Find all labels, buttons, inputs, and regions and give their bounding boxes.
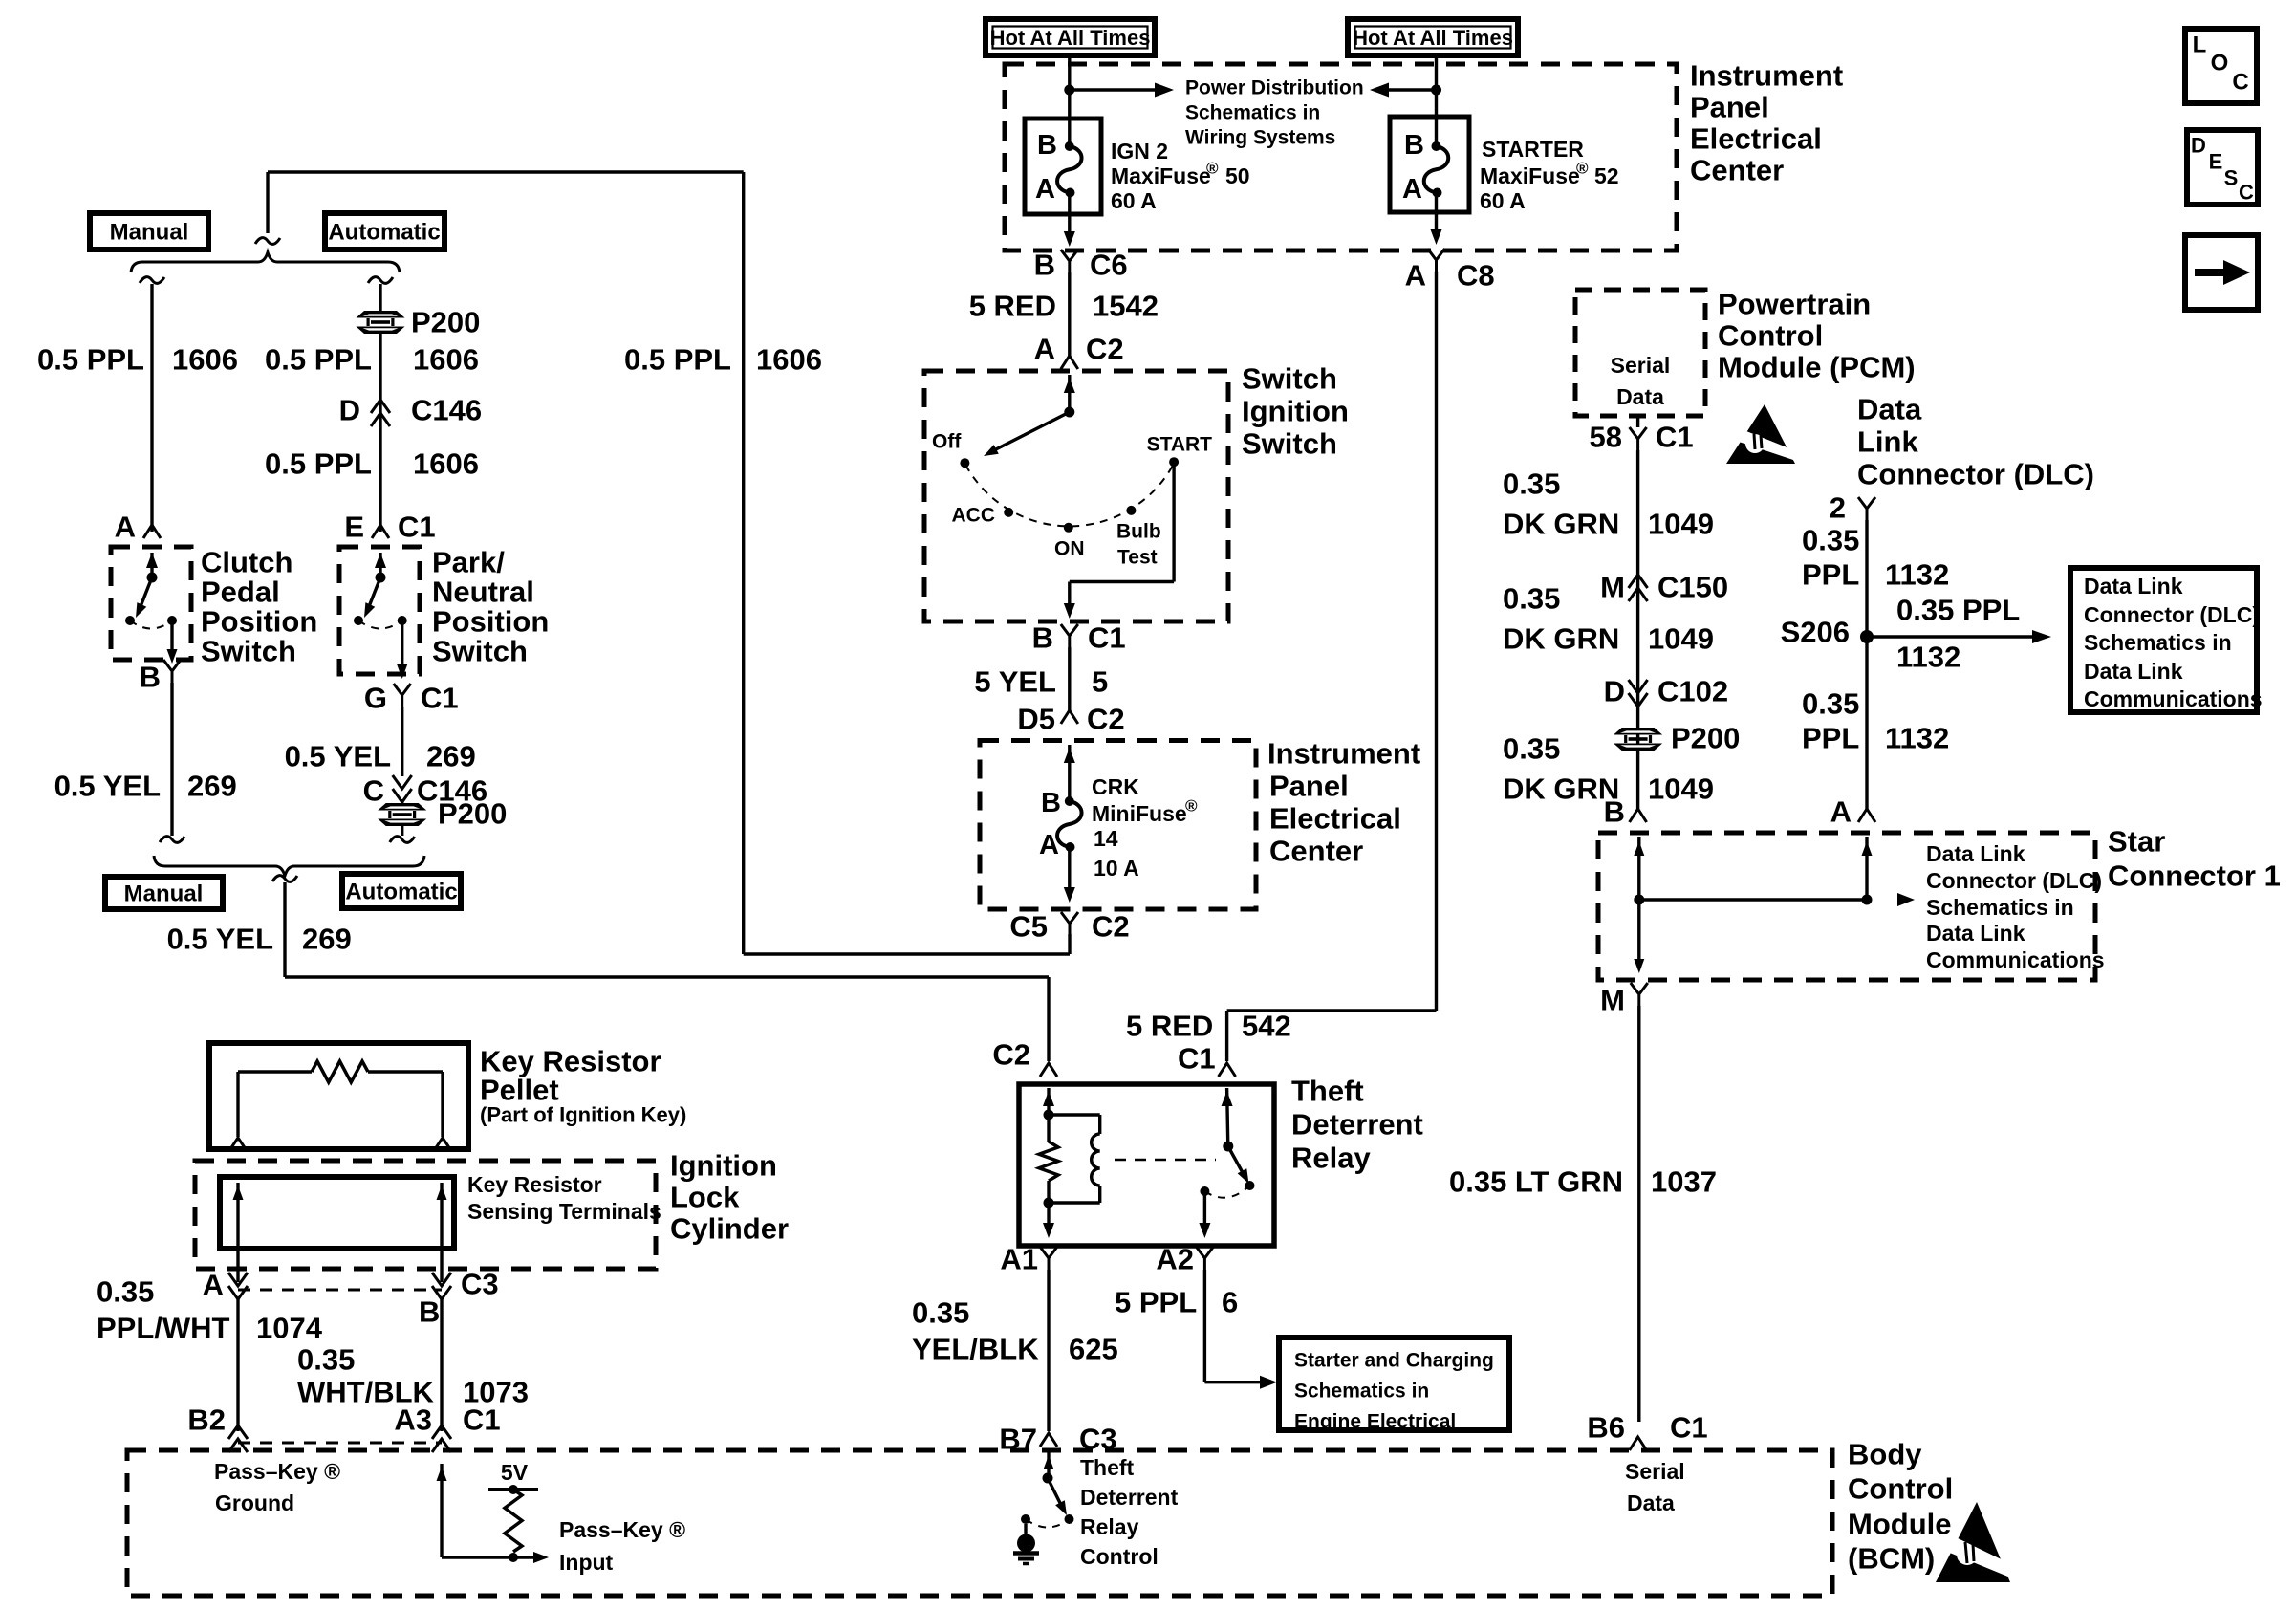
svg-text:C1: C1 [463,1403,501,1437]
svg-text:Connector 1: Connector 1 [2108,859,2281,893]
svg-text:Position: Position [432,605,549,639]
svg-text:D: D [2191,134,2206,158]
svg-text:B: B [1604,795,1625,829]
svg-text:Pass–Key ®: Pass–Key ® [559,1517,685,1542]
svg-text:Ignition: Ignition [670,1149,777,1183]
svg-text:5 PPL: 5 PPL [1115,1286,1197,1319]
svg-text:5V: 5V [501,1460,529,1485]
svg-text:P200: P200 [1671,722,1740,755]
svg-text:1542: 1542 [1093,290,1159,323]
svg-text:S206: S206 [1781,616,1850,649]
svg-text:Pass–Key ®: Pass–Key ® [214,1459,340,1484]
svg-text:0.35: 0.35 [1802,524,1859,557]
svg-text:Clutch: Clutch [201,546,292,579]
svg-text:1049: 1049 [1648,622,1714,656]
svg-text:1074: 1074 [256,1312,323,1345]
svg-text:S: S [2224,166,2239,190]
svg-text:Park/: Park/ [432,546,505,579]
svg-text:®: ® [1185,797,1198,816]
svg-text:Off: Off [932,431,962,453]
svg-text:0.35: 0.35 [97,1275,154,1309]
svg-text:0.35: 0.35 [1503,468,1560,501]
svg-text:PPL: PPL [1802,722,1859,755]
svg-text:Communications: Communications [2084,686,2263,711]
svg-text:Link: Link [1857,425,1918,459]
svg-text:60 A: 60 A [1111,188,1157,213]
svg-text:C1: C1 [1178,1042,1216,1076]
svg-text:0.35: 0.35 [912,1296,969,1330]
svg-text:C1: C1 [1656,421,1694,454]
svg-text:Power Distribution: Power Distribution [1185,77,1364,99]
svg-text:542: 542 [1242,1010,1291,1043]
svg-text:O: O [2211,51,2229,76]
svg-text:0.5 YEL: 0.5 YEL [285,740,391,773]
svg-text:Automatic: Automatic [328,220,440,246]
svg-text:C2: C2 [1087,703,1125,736]
svg-text:5 RED: 5 RED [969,290,1056,323]
svg-text:B: B [1037,130,1057,161]
svg-text:Position: Position [201,605,317,639]
svg-text:Instrument: Instrument [1267,737,1420,771]
svg-text:STARTER: STARTER [1482,137,1584,162]
svg-text:Manual: Manual [124,881,204,907]
svg-text:ACC: ACC [952,505,996,527]
svg-text:C2: C2 [1086,333,1124,366]
svg-text:1606: 1606 [413,343,479,377]
svg-text:269: 269 [302,923,352,956]
svg-text:Data Link: Data Link [2084,659,2183,684]
svg-text:Body: Body [1848,1438,1922,1471]
svg-text:1606: 1606 [413,447,479,481]
svg-text:Bulb: Bulb [1116,521,1161,543]
svg-text:C2: C2 [992,1038,1030,1072]
svg-text:Schematics in: Schematics in [1926,895,2074,920]
svg-text:Control: Control [1080,1544,1159,1569]
svg-text:B: B [419,1295,440,1329]
svg-text:PPL/WHT: PPL/WHT [97,1312,230,1345]
svg-text:START: START [1147,434,1213,456]
svg-text:Manual: Manual [110,220,189,246]
svg-text:Deterrent: Deterrent [1291,1108,1423,1142]
svg-text:Automatic: Automatic [345,880,457,905]
svg-text:0.5 YEL: 0.5 YEL [54,770,161,803]
svg-text:5 YEL: 5 YEL [974,665,1056,699]
svg-text:®: ® [1206,160,1219,178]
svg-text:269: 269 [426,740,476,773]
svg-text:DK GRN: DK GRN [1503,508,1619,541]
svg-text:Communications: Communications [1926,947,2105,972]
svg-text:Engine Electrical: Engine Electrical [1294,1411,1456,1433]
svg-text:PPL: PPL [1802,558,1859,592]
svg-text:Starter and Charging: Starter and Charging [1294,1350,1494,1372]
svg-text:Cylinder: Cylinder [670,1212,789,1246]
svg-text:0.5 PPL: 0.5 PPL [265,447,372,481]
svg-text:C1: C1 [421,682,459,715]
svg-text:Data: Data [1616,384,1664,409]
svg-text:Theft: Theft [1291,1075,1364,1108]
svg-text:G: G [364,682,387,715]
svg-text:0.5 PPL: 0.5 PPL [37,343,144,377]
svg-text:A: A [1402,174,1422,205]
svg-text:B: B [140,661,161,694]
svg-text:Powertrain: Powertrain [1718,288,1871,321]
svg-text:Control: Control [1848,1472,1953,1506]
svg-text:D5: D5 [1017,703,1055,736]
svg-text:Hot At All Times: Hot At All Times [1353,26,1513,50]
svg-text:Pellet: Pellet [480,1074,559,1107]
svg-text:1132: 1132 [1885,722,1949,755]
svg-text:0.35: 0.35 [297,1343,355,1377]
svg-text:B: B [1032,621,1053,655]
svg-text:60 A: 60 A [1480,188,1526,213]
svg-text:D: D [339,394,360,427]
svg-text:5 RED: 5 RED [1126,1010,1213,1043]
svg-text:1606: 1606 [756,343,822,377]
svg-text:MaxiFuse: MaxiFuse [1480,163,1580,188]
svg-text:Data Link: Data Link [1926,921,2025,946]
svg-text:MiniFuse: MiniFuse [1092,801,1187,826]
svg-text:A: A [1035,174,1055,205]
svg-text:IGN 2: IGN 2 [1111,139,1168,163]
svg-text:Hot At All Times: Hot At All Times [990,26,1151,50]
svg-text:625: 625 [1069,1333,1118,1366]
svg-text:DK GRN: DK GRN [1503,622,1619,656]
svg-text:B6: B6 [1587,1411,1625,1445]
svg-text:B: B [1034,249,1055,282]
svg-text:0.35: 0.35 [1802,687,1859,721]
svg-text:D: D [1604,675,1625,708]
svg-text:Serial: Serial [1611,353,1671,378]
svg-text:Star: Star [2108,825,2165,859]
svg-text:C: C [2232,70,2248,96]
svg-text:(BCM): (BCM) [1848,1542,1935,1576]
svg-text:A2: A2 [1156,1243,1194,1276]
svg-text:1037: 1037 [1651,1165,1717,1199]
svg-text:Electrical: Electrical [1690,122,1822,156]
svg-text:Switch: Switch [1242,362,1337,396]
svg-text:C2: C2 [1092,910,1130,944]
svg-text:0.5 PPL: 0.5 PPL [624,343,731,377]
svg-text:MaxiFuse: MaxiFuse [1111,163,1211,188]
svg-text:Panel: Panel [1690,91,1769,124]
svg-text:C6: C6 [1090,249,1128,282]
svg-text:Connector (DLC): Connector (DLC) [1926,868,2102,893]
svg-text:Data: Data [1857,393,1922,426]
svg-text:Input: Input [559,1550,614,1575]
svg-text:Control: Control [1718,319,1823,353]
svg-text:C146: C146 [411,394,482,427]
svg-text:C1: C1 [398,511,436,544]
svg-text:ON: ON [1054,538,1085,560]
svg-text:P200: P200 [411,306,480,339]
svg-text:A1: A1 [1000,1243,1038,1276]
svg-text:Wiring Systems: Wiring Systems [1185,127,1335,149]
svg-text:5: 5 [1092,665,1108,699]
svg-text:Connector (DLC): Connector (DLC) [2084,602,2260,627]
svg-text:1132: 1132 [1896,641,1960,674]
svg-text:Sensing Terminals: Sensing Terminals [467,1199,661,1224]
svg-text:Lock: Lock [670,1181,740,1214]
svg-text:P200: P200 [438,797,507,831]
svg-text:C5: C5 [1009,910,1048,944]
svg-text:Data Link: Data Link [1926,841,2025,866]
svg-text:C: C [2239,181,2254,205]
svg-text:0.5 YEL: 0.5 YEL [167,923,273,956]
svg-text:C102: C102 [1657,675,1728,708]
svg-text:C8: C8 [1457,259,1495,293]
svg-text:A: A [1039,830,1059,860]
svg-text:Center: Center [1269,835,1363,868]
svg-text:(Part of Ignition Key): (Part of Ignition Key) [480,1103,686,1127]
svg-text:6: 6 [1222,1286,1238,1319]
svg-text:Panel: Panel [1269,770,1349,803]
svg-text:0.5 PPL: 0.5 PPL [265,343,372,377]
svg-text:A: A [1405,259,1426,293]
svg-text:A: A [203,1269,224,1302]
svg-text:Ground: Ground [215,1490,294,1515]
svg-text:Serial: Serial [1625,1459,1685,1484]
svg-text:10 A: 10 A [1094,856,1139,881]
svg-text:Module: Module [1848,1508,1952,1541]
svg-text:14: 14 [1094,826,1118,851]
svg-text:B: B [1041,788,1061,818]
svg-text:1049: 1049 [1648,772,1714,806]
svg-text:Schematics in: Schematics in [1294,1381,1429,1403]
svg-text:®: ® [1576,160,1589,178]
svg-text:0.35 LT GRN: 0.35 LT GRN [1449,1165,1623,1199]
svg-text:Switch: Switch [201,635,296,668]
svg-text:Center: Center [1690,154,1784,187]
svg-text:1049: 1049 [1648,508,1714,541]
svg-text:Neutral: Neutral [432,576,534,609]
svg-text:A: A [1034,333,1055,366]
svg-text:C3: C3 [461,1268,499,1301]
svg-text:Relay: Relay [1291,1142,1371,1175]
svg-text:C1: C1 [1670,1411,1708,1445]
svg-text:B: B [1404,130,1424,161]
svg-text:Switch: Switch [1242,427,1337,461]
svg-text:L: L [2193,33,2207,58]
svg-text:50: 50 [1225,163,1250,188]
svg-text:1606: 1606 [172,343,238,377]
svg-text:C1: C1 [1088,621,1126,655]
svg-text:1132: 1132 [1885,558,1949,592]
svg-text:Pedal: Pedal [201,576,280,609]
svg-text:Ignition: Ignition [1242,395,1349,428]
svg-text:C: C [363,774,384,808]
svg-text:A: A [115,511,136,544]
svg-text:0.35 PPL: 0.35 PPL [1896,594,2020,627]
svg-text:Electrical: Electrical [1269,802,1401,836]
svg-text:2: 2 [1830,491,1846,525]
svg-text:0.35: 0.35 [1503,732,1560,766]
svg-text:Schematics in: Schematics in [1185,102,1320,124]
svg-text:M: M [1600,571,1625,604]
svg-text:A: A [1830,795,1852,829]
svg-text:Schematics in: Schematics in [2084,630,2232,655]
svg-text:Test: Test [1117,547,1158,569]
svg-text:C150: C150 [1657,571,1728,604]
svg-text:0.35: 0.35 [1503,582,1560,616]
svg-text:A3: A3 [394,1403,432,1437]
svg-text:Module (PCM): Module (PCM) [1718,351,1916,384]
svg-text:E: E [2209,150,2223,174]
svg-text:E: E [344,511,364,544]
svg-text:Relay: Relay [1080,1514,1139,1539]
svg-text:Theft: Theft [1080,1455,1135,1480]
svg-text:Data Link: Data Link [2084,574,2183,598]
svg-text:Key Resistor: Key Resistor [467,1172,602,1197]
svg-text:CRK: CRK [1092,774,1139,799]
svg-text:52: 52 [1594,163,1619,188]
svg-text:58: 58 [1590,421,1622,454]
svg-text:Deterrent: Deterrent [1080,1485,1179,1510]
svg-text:YEL/BLK: YEL/BLK [912,1333,1039,1366]
svg-text:DK GRN: DK GRN [1503,772,1619,806]
svg-text:Connector (DLC): Connector (DLC) [1857,458,2094,491]
svg-text:Switch: Switch [432,635,528,668]
svg-text:B2: B2 [187,1403,226,1437]
svg-text:Instrument: Instrument [1690,59,1843,93]
svg-text:Data: Data [1627,1490,1675,1515]
svg-text:M: M [1600,984,1625,1017]
svg-text:269: 269 [187,770,237,803]
